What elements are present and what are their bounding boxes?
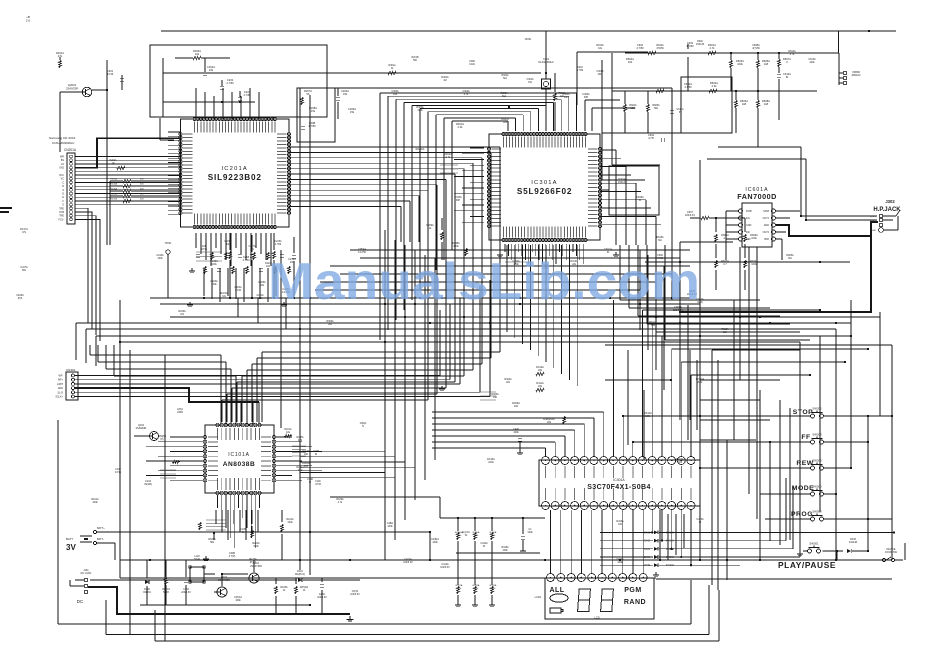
svg-text:100k: 100k xyxy=(387,525,393,528)
svg-text:TP201: TP201 xyxy=(165,243,172,245)
svg-text:IC201A: IC201A xyxy=(221,166,248,172)
svg-text:IN4148: IN4148 xyxy=(666,564,674,567)
svg-text:IN: IN xyxy=(315,454,318,456)
svg-text:100k: 100k xyxy=(417,109,423,112)
svg-text:REW: REW xyxy=(796,460,813,467)
svg-text:H.P.JACK: H.P.JACK xyxy=(873,207,901,213)
svg-text:100: 100 xyxy=(514,405,519,408)
svg-text:C: C xyxy=(62,181,64,184)
svg-text:4.7k: 4.7k xyxy=(446,155,452,159)
svg-text:100k: 100k xyxy=(92,501,98,504)
svg-text:4.7/5: 4.7/5 xyxy=(648,136,654,140)
svg-text:JP201: JP201 xyxy=(525,38,532,41)
svg-text:1R: 1R xyxy=(112,163,115,165)
svg-text:220: 220 xyxy=(304,453,309,456)
svg-text:N: N xyxy=(362,425,364,428)
svg-text:SW303: SW303 xyxy=(812,459,822,463)
svg-text:1M: 1M xyxy=(443,79,446,82)
svg-text:DC JACK: DC JACK xyxy=(81,572,92,575)
svg-text:1SS133: 1SS133 xyxy=(618,181,627,184)
svg-text:CNS-MN9N8AU: CNS-MN9N8AU xyxy=(52,141,74,145)
svg-text:FCS-: FCS- xyxy=(58,218,64,221)
svg-text:1SS133: 1SS133 xyxy=(696,43,705,46)
svg-text:OUT1: OUT1 xyxy=(763,217,770,220)
svg-text:R206A: R206A xyxy=(110,193,117,196)
svg-text:100k: 100k xyxy=(751,263,757,266)
svg-text:1k8: 1k8 xyxy=(764,102,769,106)
svg-text:R202A: R202A xyxy=(109,159,116,162)
svg-text:R207A: R207A xyxy=(110,198,117,201)
svg-text:3V: 3V xyxy=(66,543,76,552)
svg-text:Samsung CD 3CDI: Samsung CD 3CDI xyxy=(49,136,75,140)
svg-text:PLAY/PAUSE: PLAY/PAUSE xyxy=(778,560,836,570)
svg-text:220/6.3V: 220/6.3V xyxy=(685,214,695,217)
svg-text:15k: 15k xyxy=(311,109,316,113)
svg-text:100: 100 xyxy=(618,523,623,526)
svg-text:P/WF: P/WF xyxy=(746,210,753,213)
svg-text:LO: LO xyxy=(61,163,64,166)
svg-text:1k8: 1k8 xyxy=(742,102,747,106)
svg-text:R203A: R203A xyxy=(110,178,117,181)
svg-text:1k8: 1k8 xyxy=(764,62,769,66)
svg-text:WF+: WF+ xyxy=(58,379,64,382)
svg-text:LCD1: LCD1 xyxy=(535,595,542,599)
svg-text:BATT-: BATT- xyxy=(97,538,104,541)
svg-text:M/S#: M/S# xyxy=(763,210,769,213)
svg-text:GND: GND xyxy=(746,224,752,227)
svg-text:IN: IN xyxy=(465,534,468,537)
svg-text:NL432-4MHz: NL432-4MHz xyxy=(538,60,554,64)
svg-text:LCD: LCD xyxy=(594,616,599,620)
svg-text:47/16: 47/16 xyxy=(107,72,114,76)
svg-text:D: D xyxy=(62,193,64,196)
svg-text:ManualsLib.com: ManualsLib.com xyxy=(268,253,700,311)
svg-text:R11CA: R11CA xyxy=(296,466,304,469)
svg-text:100: 100 xyxy=(493,396,498,399)
svg-text:4.7k: 4.7k xyxy=(710,46,716,50)
svg-text:IN: IN xyxy=(699,521,702,524)
svg-text:4.7k: 4.7k xyxy=(464,93,469,96)
svg-text:50uR: 50uR xyxy=(194,558,200,561)
svg-text:IN1: IN1 xyxy=(746,217,750,220)
svg-text:GND: GND xyxy=(58,387,64,390)
svg-text:4.7k: 4.7k xyxy=(338,501,343,504)
svg-text:100k: 100k xyxy=(502,549,508,552)
svg-text:100k: 100k xyxy=(287,521,293,524)
svg-text:C217A: C217A xyxy=(248,245,255,248)
svg-text:4.7/50: 4.7/50 xyxy=(308,124,316,128)
svg-text:4.7/50: 4.7/50 xyxy=(275,244,282,246)
svg-text:2.2k: 2.2k xyxy=(458,125,464,129)
svg-text:R420HA: R420HA xyxy=(455,531,464,534)
svg-text:STOP: STOP xyxy=(793,409,813,416)
svg-text:15k: 15k xyxy=(350,110,355,114)
svg-text:IC301A: IC301A xyxy=(531,180,558,186)
svg-text:FAN7000D: FAN7000D xyxy=(737,192,777,201)
svg-text:4.7/50: 4.7/50 xyxy=(636,46,644,50)
svg-text:BATT+: BATT+ xyxy=(97,527,105,530)
svg-text:MA(DC1): MA(DC1) xyxy=(295,573,305,576)
svg-text:IN4148: IN4148 xyxy=(666,540,674,543)
svg-text:GND: GND xyxy=(764,224,770,227)
svg-text:SW304: SW304 xyxy=(812,433,822,437)
svg-text:MODE: MODE xyxy=(792,485,814,492)
svg-text:IN(4M): IN(4M) xyxy=(144,483,152,486)
svg-text:D404: D404 xyxy=(644,556,650,559)
svg-text:S5L9266F02: S5L9266F02 xyxy=(517,187,572,196)
svg-text:N: N xyxy=(309,481,311,484)
svg-text:SW302: SW302 xyxy=(812,407,822,411)
svg-text:C220A: C220A xyxy=(256,294,263,297)
svg-text:FCB: FCB xyxy=(59,211,64,214)
svg-text:R302A: R302A xyxy=(501,74,508,77)
svg-text:2SC4730R: 2SC4730R xyxy=(218,579,230,582)
svg-text:R: R xyxy=(62,185,64,188)
svg-text:C218A: C218A xyxy=(274,240,281,243)
svg-text:C30D: C30D xyxy=(469,61,475,63)
svg-text:R205A: R205A xyxy=(110,188,117,191)
svg-text:C2B: C2B xyxy=(202,246,207,248)
svg-text:100/6.3V: 100/6.3V xyxy=(403,561,413,564)
svg-text:4.7/50: 4.7/50 xyxy=(686,44,694,48)
svg-text:IN4148: IN4148 xyxy=(849,541,858,544)
svg-text:SW300: SW300 xyxy=(812,485,822,489)
svg-text:100/6.3V: 100/6.3V xyxy=(350,593,360,596)
svg-text:R429A: R429A xyxy=(490,584,497,587)
svg-text:TRE: TRE xyxy=(59,207,64,210)
svg-text:100k: 100k xyxy=(617,561,623,564)
svg-text:C10B: C10B xyxy=(313,451,319,453)
svg-text:IN4148: IN4148 xyxy=(666,556,674,559)
svg-text:100k: 100k xyxy=(598,74,604,76)
svg-text:D402: D402 xyxy=(644,540,650,543)
svg-text:D405: D405 xyxy=(644,564,650,567)
svg-text:100k: 100k xyxy=(432,541,438,544)
svg-text:2SA933R: 2SA933R xyxy=(66,86,78,90)
svg-text:330k: 330k xyxy=(453,245,459,248)
svg-text:BS: BS xyxy=(61,159,65,162)
svg-text:2k2: 2k2 xyxy=(328,323,333,326)
svg-text:R221A: R221A xyxy=(224,240,231,243)
svg-text:4.7/50: 4.7/50 xyxy=(577,70,584,72)
svg-text:R30CA: R30CA xyxy=(501,118,509,121)
svg-text:10k: 10k xyxy=(195,52,200,56)
svg-text:MA: MA xyxy=(788,257,792,260)
svg-text:S3C70F4X1-S0B4: S3C70F4X1-S0B4 xyxy=(587,484,651,491)
svg-text:DOOR SW: DOOR SW xyxy=(885,551,897,554)
svg-text:15k: 15k xyxy=(343,92,348,96)
svg-text:8.2k: 8.2k xyxy=(698,381,703,384)
svg-text:(P): (P) xyxy=(160,438,163,441)
svg-text:BATT: BATT xyxy=(66,537,73,541)
svg-text:100k: 100k xyxy=(737,62,743,66)
svg-text:SW301: SW301 xyxy=(809,542,819,546)
svg-text:220R: 220R xyxy=(177,411,183,414)
svg-text:IN: IN xyxy=(786,75,789,79)
svg-text:R204A: R204A xyxy=(110,183,117,186)
svg-text:TRE: TRE xyxy=(59,215,64,218)
svg-text:R426A: R426A xyxy=(490,531,497,534)
svg-text:390k: 390k xyxy=(253,545,259,548)
svg-text:VC: VC xyxy=(61,178,65,181)
svg-text:R427A: R427A xyxy=(456,584,463,587)
svg-text:IC401A: IC401A xyxy=(613,478,625,482)
svg-text:C10C: C10C xyxy=(315,481,321,483)
svg-text:IN4148: IN4148 xyxy=(666,548,674,551)
svg-text:100k: 100k xyxy=(211,263,217,266)
svg-text:R428A: R428A xyxy=(473,584,480,587)
svg-text:GND: GND xyxy=(871,230,876,232)
svg-text:2SC4730R: 2SC4730R xyxy=(250,565,262,568)
svg-text:47/16: 47/16 xyxy=(201,249,207,251)
svg-text:SL-D: SL-D xyxy=(58,391,64,394)
svg-text:VCC: VCC xyxy=(59,174,64,177)
svg-text:R222A: R222A xyxy=(220,292,227,295)
svg-text:CN201A: CN201A xyxy=(64,148,77,152)
svg-text:100/6.3V: 100/6.3V xyxy=(440,566,450,569)
svg-text:WR: WR xyxy=(60,156,64,159)
svg-text:R201B: R201B xyxy=(411,57,418,59)
svg-text:SW306: SW306 xyxy=(812,510,822,514)
svg-text:IC101A: IC101A xyxy=(228,452,249,458)
svg-text:AN8038B: AN8038B xyxy=(223,461,255,468)
svg-text:CN301: CN301 xyxy=(66,368,76,372)
svg-text:100: 100 xyxy=(628,60,633,64)
svg-text:LIMIT: LIMIT xyxy=(57,383,64,386)
svg-text:IN: IN xyxy=(483,545,486,548)
svg-text:100k: 100k xyxy=(211,283,217,286)
svg-text:R425A: R425A xyxy=(473,531,480,534)
svg-text:47/16: 47/16 xyxy=(235,289,242,292)
svg-text:4(7)/50: 4(7)/50 xyxy=(752,47,760,50)
svg-text:D403: D403 xyxy=(644,548,650,551)
svg-text:SIL9223B02: SIL9223B02 xyxy=(208,173,262,182)
svg-text:OUT2: OUT2 xyxy=(763,231,770,234)
svg-text:VDD: VDD xyxy=(764,238,769,241)
svg-text:4.7: 4.7 xyxy=(723,237,727,240)
svg-text:RAND: RAND xyxy=(624,599,646,606)
svg-text:D401: D401 xyxy=(644,531,650,534)
svg-text:100k: 100k xyxy=(527,531,533,534)
svg-text:IN: IN xyxy=(679,111,682,114)
svg-text:100k: 100k xyxy=(630,107,636,110)
svg-text:IN: IN xyxy=(639,199,642,202)
svg-text:4.7/50: 4.7/50 xyxy=(226,81,234,85)
svg-text:30P: 30P xyxy=(564,96,569,99)
svg-text:4.7k: 4.7k xyxy=(790,53,795,56)
svg-text:470/50: 470/50 xyxy=(656,47,664,50)
svg-text:4.7/50: 4.7/50 xyxy=(243,259,251,262)
svg-text:47/16: 47/16 xyxy=(115,471,122,474)
svg-text:C302: C302 xyxy=(577,67,583,69)
svg-text:ALL: ALL xyxy=(549,587,564,594)
svg-text:PROG: PROG xyxy=(791,511,813,518)
svg-text:30P: 30P xyxy=(456,199,461,202)
svg-text:100k: 100k xyxy=(645,415,651,418)
svg-text:A50kX2: A50kX2 xyxy=(851,73,861,77)
svg-text:WF-: WF- xyxy=(58,375,63,378)
svg-text:30P: 30P xyxy=(584,96,589,99)
svg-text:15k: 15k xyxy=(209,68,214,72)
svg-text:GN2: GN2 xyxy=(59,167,65,170)
svg-text:100k: 100k xyxy=(235,599,241,602)
svg-text:IN4148: IN4148 xyxy=(666,531,674,534)
svg-text:4.3k: 4.3k xyxy=(712,84,718,88)
svg-text:100k: 100k xyxy=(809,61,815,64)
svg-text:R11BA: R11BA xyxy=(296,436,304,439)
svg-text:FF: FF xyxy=(801,434,810,441)
svg-text:2.6: 2.6 xyxy=(26,19,31,23)
svg-text:MA: MA xyxy=(658,239,662,242)
svg-text:100k: 100k xyxy=(513,431,519,434)
svg-text:G: G xyxy=(62,204,64,207)
svg-text:SCLK+: SCLK+ xyxy=(55,396,63,399)
svg-text:100k: 100k xyxy=(157,257,163,260)
svg-text:C303A: C303A xyxy=(526,78,533,81)
svg-text:2SA933R: 2SA933R xyxy=(136,427,147,430)
svg-text:C361A: C361A xyxy=(596,70,603,73)
svg-text:PGM: PGM xyxy=(624,587,641,594)
svg-text:4.7(P): 4.7(P) xyxy=(229,555,236,558)
svg-text:100k: 100k xyxy=(488,461,494,464)
svg-text:(P)h: (P)h xyxy=(18,297,23,300)
svg-text:4.7: 4.7 xyxy=(723,263,727,266)
svg-text:IN: IN xyxy=(242,531,245,534)
svg-text:100k: 100k xyxy=(298,470,304,472)
svg-text:DC: DC xyxy=(77,599,84,604)
svg-text:100k: 100k xyxy=(751,237,757,240)
svg-text:47/16: 47/16 xyxy=(315,484,321,486)
svg-text:0.022: 0.022 xyxy=(469,64,475,66)
svg-text:J302: J302 xyxy=(885,199,895,204)
